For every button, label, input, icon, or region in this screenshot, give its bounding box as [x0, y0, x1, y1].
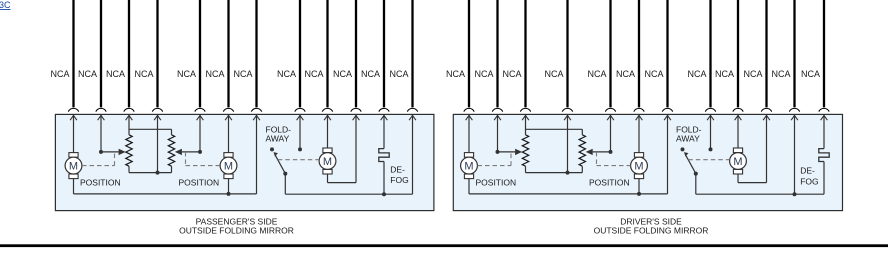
svg-text:AWAY: AWAY [266, 134, 290, 144]
svg-text:NCA: NCA [446, 69, 465, 79]
svg-text:M: M [464, 161, 473, 173]
svg-text:POSITION: POSITION [179, 178, 220, 188]
svg-text:M: M [634, 161, 643, 173]
svg-text:AWAY: AWAY [676, 134, 700, 144]
svg-text:OUTSIDE FOLDING MIRROR: OUTSIDE FOLDING MIRROR [594, 226, 709, 236]
svg-text:NCA: NCA [715, 69, 734, 79]
svg-text:NCA: NCA [544, 69, 563, 79]
svg-text:NCA: NCA [177, 69, 196, 79]
svg-text:NCA: NCA [474, 69, 493, 79]
svg-text:NCA: NCA [106, 69, 125, 79]
svg-text:DE-: DE- [800, 166, 815, 176]
svg-text:POSITION: POSITION [589, 178, 630, 188]
svg-text:POSITION: POSITION [476, 178, 517, 188]
svg-text:NCA: NCA [304, 69, 323, 79]
svg-text:DE-: DE- [390, 164, 405, 174]
svg-text:3C: 3C [0, 0, 11, 10]
svg-text:NCA: NCA [743, 69, 762, 79]
svg-text:NCA: NCA [687, 69, 706, 79]
svg-text:NCA: NCA [616, 69, 635, 79]
svg-text:NCA: NCA [78, 69, 97, 79]
svg-text:NCA: NCA [205, 69, 224, 79]
svg-text:OUTSIDE FOLDING MIRROR: OUTSIDE FOLDING MIRROR [179, 226, 294, 236]
svg-text:FOG: FOG [800, 176, 818, 186]
svg-text:NCA: NCA [587, 69, 606, 79]
svg-text:NCA: NCA [502, 69, 521, 79]
svg-text:NCA: NCA [771, 69, 790, 79]
svg-text:NCA: NCA [333, 69, 352, 79]
svg-text:NCA: NCA [389, 69, 408, 79]
svg-text:NCA: NCA [801, 69, 820, 79]
svg-text:NCA: NCA [233, 69, 252, 79]
svg-text:M: M [224, 161, 233, 173]
svg-text:M: M [733, 156, 742, 168]
svg-text:M: M [323, 156, 332, 168]
svg-text:FOG: FOG [390, 175, 408, 185]
svg-text:NCA: NCA [277, 69, 296, 79]
svg-text:M: M [69, 161, 78, 173]
svg-text:NCA: NCA [361, 69, 380, 79]
svg-text:POSITION: POSITION [80, 178, 121, 188]
svg-text:NCA: NCA [134, 69, 153, 79]
svg-text:NCA: NCA [644, 69, 663, 79]
svg-text:NCA: NCA [50, 69, 69, 79]
